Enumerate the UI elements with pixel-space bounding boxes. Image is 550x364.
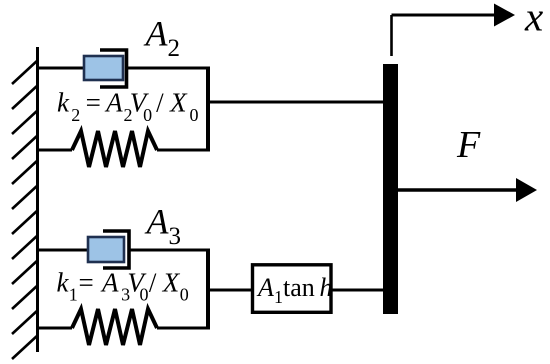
svg-text:A2: A2 [144,14,181,63]
wire top output [208,101,384,104]
spring k2 [72,131,157,167]
node top branch right vertical [206,67,210,152]
wire bottom spring left [37,327,72,330]
wire bottom damper right [129,249,208,252]
arrow x [392,14,497,17]
wire top spring left [37,149,72,152]
svg-text:A1tanh: A1tanh [256,273,333,307]
arrow F [398,188,518,191]
wall [36,47,39,352]
label A3 [145,202,182,251]
wire bottom output right [332,289,384,292]
wire bottom damper left [37,249,89,252]
label k2 = A2V0 / X0 [57,88,199,126]
rigid bar [383,64,398,314]
wire bottom output left [208,289,252,292]
label x [524,0,543,40]
svg-text:k2=A2V0/X0: k2=A2V0/X0 [57,88,199,126]
damper A2 cylinder [100,50,127,87]
friction block A1 tan h [253,265,333,313]
wire top damper left [37,67,85,70]
damper A2 piston [84,56,123,80]
label F [456,124,481,166]
damper A3 cylinder [103,231,129,268]
node bottom branch right vertical [206,249,210,330]
svg-text:F: F [456,124,481,166]
wire top damper right [127,67,209,70]
wire bottom spring right [157,327,208,330]
wire top spring right [157,149,208,152]
label A2 [144,14,181,63]
svg-text:k1=A3V0/X0: k1=A3V0/X0 [57,267,189,304]
wall hatching [12,60,38,359]
damper A3 piston [88,237,124,262]
svg-text:x: x [524,0,543,40]
svg-text:A3: A3 [145,202,182,251]
wire x stub [390,15,393,56]
spring k1 [72,309,157,345]
label k1 = A3V0 / X0 [57,267,189,304]
